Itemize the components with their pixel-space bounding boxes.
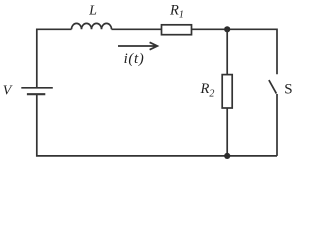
wire: inductor to R1 <box>112 28 162 30</box>
svg-text:R2: R2 <box>200 81 215 99</box>
wire: switch bottom contact down to bottom-right corner <box>276 94 278 156</box>
wire: battery negative down and bottom wire to right side <box>37 95 277 156</box>
battery source V: long (+) plate <box>21 87 53 89</box>
resistor R1 <box>162 25 192 35</box>
wire: R2 to bottom node <box>226 108 228 156</box>
svg-text:i(t): i(t) <box>124 51 145 67</box>
svg-text:S: S <box>284 81 292 97</box>
switch S blade (open) <box>269 80 277 94</box>
svg-text:V: V <box>3 84 13 99</box>
junction dot (bottom) <box>224 153 230 159</box>
battery source V: short (-) plate <box>27 93 45 95</box>
svg-text:R1: R1 <box>169 3 184 21</box>
svg-text:L: L <box>88 4 97 19</box>
wire: R1 to top-right corner and down to switch <box>192 29 278 74</box>
wire: node A down to R2 <box>226 29 228 74</box>
wire: V+ up left side and top-left to inductor <box>37 29 72 88</box>
inductor L <box>72 23 112 29</box>
resistor R2 <box>222 75 232 108</box>
node A junction dot (top) <box>224 26 230 32</box>
current arrow i(t) <box>118 42 157 49</box>
